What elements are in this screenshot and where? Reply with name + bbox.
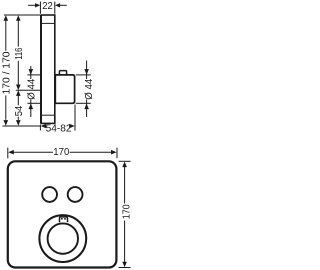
svg-text:116: 116	[14, 47, 25, 59]
svg-text:22: 22	[42, 1, 53, 12]
svg-text:Ø 44: Ø 44	[84, 78, 95, 99]
svg-text:54: 54	[14, 105, 25, 116]
svg-text:170 / 170: 170 / 170	[1, 51, 12, 94]
svg-text:170: 170	[121, 204, 132, 219]
svg-text:Ø 44: Ø 44	[27, 78, 38, 99]
svg-text:170: 170	[53, 147, 69, 158]
svg-text:54-82: 54-82	[46, 123, 72, 134]
